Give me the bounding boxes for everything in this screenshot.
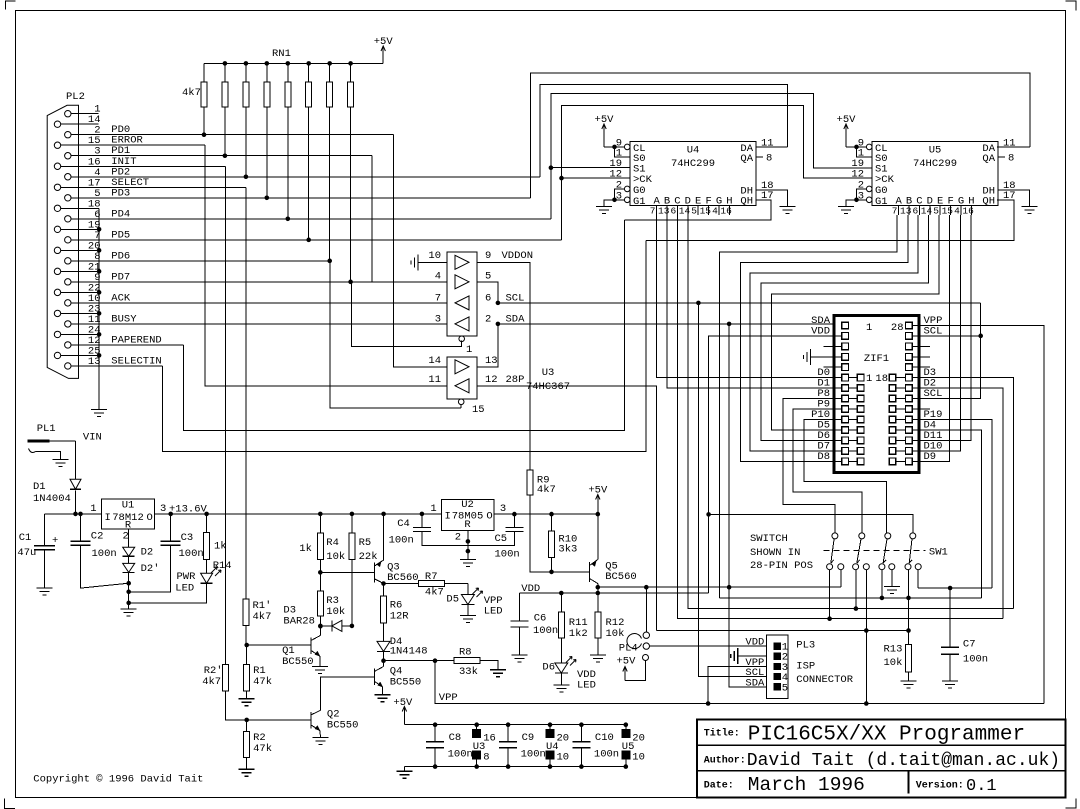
- capacitor C2 100n: [80, 514, 82, 541]
- svg-text:9: 9: [485, 250, 491, 262]
- svg-text:+5V: +5V: [595, 114, 615, 126]
- wire U4 S1 from junction: [551, 167, 630, 169]
- ground at R8 right: [490, 670, 506, 677]
- SW1 section 4 blade: [909, 539, 912, 563]
- wire PAPEREND drop to long bus: [184, 220, 625, 431]
- PL2 pin 3: [65, 153, 71, 159]
- svg-text:U2: U2: [461, 499, 474, 511]
- svg-text:ZIF1: ZIF1: [864, 353, 889, 365]
- svg-text:15: 15: [700, 206, 712, 217]
- wire P10 U-route to SW1 pole 3: [804, 419, 887, 532]
- PL2 pin 22: [54, 289, 60, 295]
- svg-text:+5V: +5V: [617, 656, 637, 668]
- PL2 pin 6: [65, 216, 71, 222]
- ground at decoupling rail: [403, 767, 405, 772]
- svg-text:15: 15: [472, 404, 485, 416]
- wire SW1-1 right to switched VDD line: [840, 570, 842, 588]
- svg-text:3: 3: [500, 503, 506, 515]
- wire ZIF D3 row to bundle: [912, 378, 1013, 609]
- ground below R13: [901, 681, 917, 688]
- corner crop mark bottom-right: [1066, 799, 1077, 808]
- svg-text:10k: 10k: [326, 606, 345, 618]
- ground below Q4 emitter: [375, 695, 391, 702]
- ZIF1 right pin row 4: [906, 353, 913, 360]
- SW1 section 1 blade: [831, 539, 834, 563]
- U4 +5V arrow: [603, 125, 605, 147]
- PL3 pin 5: [774, 684, 780, 690]
- svg-text:R14: R14: [213, 560, 232, 572]
- svg-text:100n: 100n: [92, 548, 117, 560]
- U4 pin G1 bubble: [624, 197, 630, 203]
- SW1 section 4 left contact: [905, 564, 911, 570]
- svg-text:11: 11: [1003, 137, 1016, 149]
- svg-text:4: 4: [954, 206, 960, 217]
- wire PD1 row: [71, 155, 372, 157]
- bus PD2 to U4 DA: [540, 85, 788, 177]
- wire U5 D to ZIF D6: [761, 215, 929, 440]
- svg-text:33k: 33k: [459, 666, 478, 678]
- svg-text:6: 6: [485, 293, 491, 305]
- ZIF1 left pin row 13: [842, 448, 849, 455]
- svg-text:O: O: [486, 511, 492, 523]
- wire U4 A to ZIF D0: [657, 215, 842, 378]
- PL2 pin 9: [65, 279, 71, 285]
- ground below R1: [239, 699, 255, 706]
- wire PD0 drop to U3 pin 14: [394, 135, 448, 367]
- svg-text:+: +: [52, 535, 58, 547]
- svg-text:QA: QA: [740, 153, 753, 165]
- svg-text:15: 15: [942, 206, 954, 217]
- PL3 pin 4: [774, 673, 780, 679]
- ZIF1 left pin row 12: [842, 437, 849, 444]
- power pins U4: [548, 722, 553, 727]
- wire SW1-1 left to D3 bundle: [829, 570, 831, 619]
- svg-text:1: 1: [866, 373, 872, 385]
- wire SCL over ZIF down to row8: [912, 303, 981, 399]
- wire PD3 row: [71, 197, 530, 199]
- PL2 pin 12: [65, 342, 71, 348]
- svg-text:17: 17: [1003, 190, 1016, 202]
- svg-text:VDDON: VDDON: [502, 250, 534, 262]
- PL4 pin 3 to +5V: [643, 655, 649, 661]
- wire C2 bottom to ground node: [81, 545, 129, 588]
- wire R9 bottom to Q5 base node: [530, 495, 552, 572]
- ZIF1 right pin row 13: [906, 448, 913, 455]
- svg-text:4k7: 4k7: [202, 676, 221, 688]
- diode D4 1N4148: [383, 623, 385, 641]
- SW1 section 2 right contact: [863, 564, 869, 570]
- svg-text:R7: R7: [425, 571, 438, 583]
- svg-text:16: 16: [720, 206, 732, 217]
- wire ZIF D4 row down: [912, 430, 981, 598]
- ZIF1 left pin row 4: [842, 353, 849, 360]
- svg-text:28-PIN POS: 28-PIN POS: [750, 560, 813, 572]
- wire C3 bottom to ground node: [129, 545, 171, 592]
- svg-text:1: 1: [866, 322, 872, 334]
- svg-text:4k7: 4k7: [182, 87, 201, 99]
- wire SW1-4 right to P19 line: [917, 570, 919, 588]
- resistor R1' 4k7: [245, 598, 247, 600]
- svg-text:Title:: Title:: [704, 728, 740, 740]
- svg-text:7: 7: [892, 206, 898, 217]
- wire PD2 row: [71, 176, 540, 178]
- power pins U5: [624, 722, 629, 727]
- ZIF1 left pin row 2: [842, 333, 849, 340]
- svg-text:ISP: ISP: [796, 661, 815, 673]
- wire SELECTIN drop to long bus: [163, 241, 646, 452]
- PL2 pin 25: [54, 352, 60, 358]
- ZIF1 right pin row 7: [906, 385, 913, 392]
- wire switched VDD line PL4/SDA/SW1: [598, 586, 841, 588]
- SW1 section 2 left contact: [853, 564, 859, 570]
- svg-text:4k7: 4k7: [253, 611, 272, 623]
- svg-text:BC560: BC560: [605, 571, 637, 583]
- svg-text:U4: U4: [687, 145, 700, 157]
- VDD rail: [520, 592, 709, 594]
- U5 pin G1 bubble: [866, 197, 872, 203]
- ground at PL1: [53, 460, 69, 467]
- PL2 ground bus: [98, 208, 100, 409]
- svg-text:RN1: RN1: [272, 48, 291, 60]
- svg-text:100n: 100n: [533, 625, 558, 637]
- svg-text:QH: QH: [740, 196, 753, 208]
- junction SCL drop: [696, 301, 701, 306]
- resistor R2' 4k7: [222, 665, 228, 691]
- wire SELECTIN row: [71, 365, 163, 367]
- svg-text:March 1996: March 1996: [748, 774, 865, 796]
- svg-text:LED: LED: [484, 606, 503, 618]
- svg-text:PL3: PL3: [796, 639, 815, 651]
- svg-text:BAR28: BAR28: [283, 616, 315, 628]
- svg-text:8: 8: [483, 752, 489, 764]
- wire buffer5 output to SDA node: [477, 324, 498, 367]
- wire INIT drop to R2': [224, 166, 226, 664]
- U4 pin G0 bubble: [624, 186, 630, 192]
- PL2 pin 21: [54, 268, 60, 274]
- wire SCL line to right: [498, 302, 981, 304]
- wire U3 lower enable: [460, 405, 462, 408]
- ground below Q2 emitter: [313, 738, 329, 745]
- U3 buffer 5 (SDA driver): [455, 360, 469, 374]
- wire U5 H to ZIF D11: [912, 215, 971, 440]
- U4 DH ground symbol: [780, 207, 796, 214]
- U2 pin 2 wire to ground: [467, 530, 469, 559]
- svg-text:David Tait (d.tait@man.ac.uk): David Tait (d.tait@man.ac.uk): [747, 751, 1060, 771]
- RN1 resistor element 3: [245, 63, 247, 82]
- wire U5 DA stub: [997, 146, 1030, 148]
- svg-text:+5V: +5V: [837, 114, 857, 126]
- ZIF1 left stub row3: [824, 345, 842, 347]
- svg-text:10: 10: [632, 752, 645, 764]
- U4 wire DH to ground: [756, 190, 788, 206]
- PL3 pin2 ground: [731, 648, 738, 664]
- PL2 pin 13: [65, 363, 71, 369]
- svg-text:QA: QA: [982, 153, 995, 165]
- ground below D6: [560, 673, 562, 685]
- wire U5 B to ZIF D8: [740, 215, 908, 461]
- svg-text:13: 13: [485, 355, 498, 367]
- ZIF1 left pin row 11: [842, 427, 849, 434]
- svg-text:16: 16: [962, 206, 974, 217]
- svg-text:13: 13: [900, 206, 912, 217]
- PL1 sleeve hook: [29, 449, 36, 453]
- svg-text:28P: 28P: [506, 374, 525, 386]
- wire buffer2 output to SCL node: [477, 282, 498, 303]
- RN1 resistor element 7: [329, 63, 331, 82]
- wire INIT row: [61, 165, 226, 167]
- svg-text:3: 3: [435, 314, 441, 326]
- wire ZIF D2 row to bundle: [912, 388, 1003, 619]
- transistor Q5 BC560 PNP: [589, 562, 591, 582]
- PL2 pin 17: [54, 184, 60, 190]
- wire PWR LED to ground node: [129, 583, 207, 603]
- svg-text:10k: 10k: [326, 551, 345, 563]
- U1 pin 2 wire: [128, 529, 130, 535]
- wire buffer6 input 28P: [477, 386, 657, 631]
- U3 upper enable bubble pin 1: [459, 336, 465, 342]
- bus PD5/CK to U5 CK: [562, 106, 873, 240]
- svg-text:14: 14: [921, 206, 933, 217]
- PL2 pin 5: [65, 195, 71, 201]
- ZIF1 right pin row 6: [906, 374, 913, 381]
- resistor R2 47k: [246, 720, 248, 732]
- input rail to U1: [45, 513, 102, 515]
- svg-text:R5: R5: [359, 537, 372, 549]
- SW1 section 2 top contact: [859, 533, 865, 539]
- capacitor C9 100n: [506, 722, 511, 727]
- svg-text:+5V: +5V: [393, 697, 413, 709]
- ZIF1 right stub row9: [912, 408, 930, 410]
- resistor R11 1k2: [560, 593, 562, 612]
- svg-text:D2: D2: [141, 547, 154, 559]
- title block row dividers: [697, 744, 1065, 746]
- svg-text:18: 18: [875, 373, 888, 385]
- U3 buffer 1 (VDDON driver): [455, 255, 469, 269]
- wire ZIF VPP row1 to right rail: [912, 325, 1044, 703]
- U5 DH ground symbol: [1022, 207, 1038, 214]
- wire VDD ZIF row2 drop: [709, 336, 842, 593]
- svg-text:100n: 100n: [389, 535, 414, 547]
- svg-text:C4: C4: [397, 518, 410, 530]
- connector PL3 box: [767, 635, 788, 698]
- svg-text:SDA: SDA: [745, 677, 765, 689]
- svg-text:1k: 1k: [299, 543, 312, 555]
- U5 pin G0 bubble: [866, 186, 872, 192]
- LED D5 VPP: [467, 584, 469, 595]
- SW1 section 1 left contact: [827, 564, 833, 570]
- PL2 pin 18: [54, 205, 60, 211]
- svg-text:4k7: 4k7: [425, 587, 444, 599]
- +5V arrow above rail: [597, 496, 599, 515]
- svg-text:I: I: [445, 511, 451, 523]
- wire U4 C drop to D2 bundle line: [678, 215, 1003, 619]
- title block version divider: [908, 771, 910, 794]
- wire ZIF P19 row down: [912, 419, 992, 588]
- ZIF1 left pin row 3: [842, 343, 849, 350]
- svg-text:PIC16C5X/XX Programmer: PIC16C5X/XX Programmer: [748, 724, 1025, 747]
- resistor R8 33k: [435, 660, 454, 662]
- svg-text:U5: U5: [929, 145, 942, 157]
- svg-text:74HC367: 74HC367: [526, 381, 570, 393]
- svg-text:SW1: SW1: [929, 547, 948, 559]
- resistor R7 4k7: [384, 583, 419, 585]
- U3 buffer 4 (BUSY receiver): [455, 317, 469, 331]
- svg-text:74HC299: 74HC299: [913, 158, 957, 170]
- svg-text:+5V: +5V: [374, 36, 394, 48]
- U3 buffer 6 (SELECTIN/28P receiver): [455, 379, 469, 393]
- PL4 connector hook: [627, 634, 642, 649]
- svg-text:QH: QH: [982, 196, 995, 208]
- wire ERROR row: [61, 144, 205, 146]
- diode D2': [123, 563, 135, 572]
- svg-text:1k2: 1k2: [569, 628, 588, 640]
- SW1 section 3 right contact: [889, 564, 895, 570]
- svg-text:Date:: Date:: [704, 781, 734, 792]
- wire U5 G to ZIF D10: [912, 215, 960, 451]
- wire U4 CK from junction: [562, 177, 631, 179]
- svg-text:0.1: 0.1: [966, 777, 997, 796]
- svg-text:12R: 12R: [390, 611, 410, 623]
- ZIF1 socket box: [834, 315, 919, 472]
- ZIF1 right stub row5: [912, 366, 930, 368]
- svg-text:C1: C1: [19, 532, 32, 544]
- RN1 resistor element 6: [308, 63, 310, 82]
- diode D1 1N4004: [70, 479, 81, 489]
- RN1 resistor element 8: [350, 63, 352, 82]
- PL4 pin 2: [643, 643, 649, 649]
- wire P9 U-route to SW1 pole 2: [793, 409, 862, 533]
- svg-text:U3: U3: [542, 367, 555, 379]
- wire SCL drop to PL3 pin 4: [698, 303, 766, 677]
- wire SW1-2 left to bundle: [855, 570, 857, 609]
- resistor R1 47k: [246, 645, 248, 665]
- resistor R13: [906, 645, 912, 672]
- ground below PL2: [91, 410, 107, 417]
- ground below C1: [37, 588, 53, 595]
- svg-text:14: 14: [428, 355, 441, 367]
- wire R4 bottom to Q3 base: [320, 571, 374, 573]
- svg-text:3: 3: [160, 503, 166, 515]
- svg-text:D5: D5: [446, 594, 459, 606]
- PWR LED: [206, 560, 208, 574]
- PL2 pin 15: [54, 142, 60, 148]
- ZIF1 right stub row4: [912, 356, 930, 358]
- svg-text:5: 5: [485, 271, 491, 283]
- svg-text:C5: C5: [495, 533, 508, 545]
- ZIF1 right pin row 12: [906, 437, 913, 444]
- ZIF1 right pin row 9: [906, 406, 913, 413]
- svg-text:6: 6: [912, 206, 918, 217]
- wire PD6 row: [71, 260, 330, 262]
- svg-text:PL1: PL1: [37, 423, 56, 435]
- U4 ground symbol: [596, 207, 612, 214]
- PL2 pin 10: [65, 300, 71, 306]
- wire bundle line U5A/D4/SW poles: [720, 597, 982, 599]
- wire U4 DA stub: [756, 146, 788, 148]
- wire buffer1 output VDDON: [477, 262, 530, 470]
- svg-text:3k3: 3k3: [558, 544, 577, 556]
- PL2 pin 20: [54, 247, 60, 253]
- svg-text:4: 4: [712, 206, 718, 217]
- PL3 pin 1: [774, 643, 780, 649]
- wire PD7/R8 drop to U3 enable 1: [352, 282, 462, 347]
- svg-text:BC550: BC550: [282, 656, 314, 668]
- svg-text:CONNECTOR: CONNECTOR: [796, 674, 853, 686]
- svg-text:BC560: BC560: [387, 572, 419, 584]
- corner crop mark top-left: [5, 1, 15, 10]
- svg-text:2: 2: [123, 531, 129, 543]
- svg-text:10k: 10k: [606, 628, 625, 640]
- IC U3 lower box: [447, 357, 477, 399]
- ZIF1 left pin row 14: [842, 458, 849, 465]
- SW1 section 2 blade: [857, 539, 861, 563]
- resistor R9 4k7: [527, 470, 533, 495]
- ground below R2: [239, 769, 255, 776]
- SW1 section 3 blade: [883, 539, 887, 563]
- PL2 pin 19: [54, 226, 60, 232]
- RN1 resistor element 4: [266, 63, 268, 82]
- svg-text:5: 5: [933, 206, 939, 217]
- ZIF1 left pin row 10: [842, 416, 849, 423]
- capacitor C5 100n: [513, 514, 515, 527]
- svg-text:R13: R13: [883, 644, 902, 656]
- svg-text:17: 17: [761, 190, 774, 202]
- wire SW1-3 left to bundle: [881, 570, 883, 598]
- svg-text:12: 12: [485, 374, 498, 386]
- PL2 pin 14: [54, 121, 60, 127]
- RN1 resistor element 1: [203, 63, 205, 82]
- svg-text:47k: 47k: [253, 743, 272, 755]
- SW1 section 1 right contact: [838, 564, 844, 570]
- U5 ground symbol: [838, 207, 854, 214]
- wire Q5 base: [552, 571, 590, 573]
- ZIF1 left pin row 9: [842, 406, 849, 413]
- svg-text:C2: C2: [91, 531, 104, 543]
- ZIF1 right stub row3: [912, 345, 930, 347]
- ZIF1 left pin row 6: [842, 374, 849, 381]
- wire U4 QH loop: [625, 200, 771, 220]
- wire SW1-3 right to ground: [891, 570, 893, 587]
- svg-text:100n: 100n: [963, 654, 988, 666]
- capacitor C4 100n: [420, 512, 425, 517]
- diode D2: [123, 547, 135, 556]
- svg-text:Author:: Author:: [704, 755, 746, 767]
- wire PD6 drop to U3 enable 15: [330, 261, 461, 408]
- svg-text:5: 5: [691, 206, 697, 217]
- IC U4 74HC299 box: [630, 142, 756, 206]
- resistor R4 10k: [319, 514, 321, 533]
- U3 buffer 2 (SCL driver): [455, 275, 469, 289]
- title block box: [697, 719, 1065, 797]
- svg-text:100n: 100n: [521, 749, 546, 761]
- ZIF1 left ground row4: [804, 349, 811, 365]
- decoupling ground rail: [404, 766, 625, 768]
- svg-text:1: 1: [430, 503, 436, 515]
- svg-text:1: 1: [466, 344, 472, 356]
- transistor Q4 BC550 NPN: [374, 669, 376, 685]
- bus PD4/S1 to U5 S1: [551, 94, 872, 219]
- transistor Q1 BC550 NPN: [310, 638, 312, 654]
- wire U5 A nested route down: [720, 215, 897, 598]
- svg-text:D1: D1: [33, 481, 46, 493]
- wire PD5 row: [71, 239, 562, 241]
- U5 wire +5V to CL and S0: [846, 146, 866, 148]
- svg-text:7: 7: [650, 206, 656, 217]
- svg-text:D2': D2': [141, 563, 160, 575]
- PL2 pin 8: [65, 258, 71, 264]
- ZIF1 left pin row 8: [842, 395, 849, 402]
- wire U5 QH loop: [646, 200, 1014, 241]
